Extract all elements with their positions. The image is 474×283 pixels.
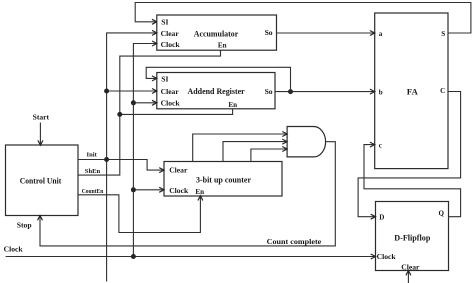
wire accumulator So to FA a	[277, 31, 375, 36]
svg-text:Clear: Clear	[401, 262, 420, 271]
counter (3-bit up counter) box	[164, 162, 282, 197]
svg-text:3-bit up counter: 3-bit up counter	[196, 174, 251, 184]
node Init junction row	[104, 157, 109, 162]
svg-text:ShEn: ShEn	[85, 168, 101, 175]
svg-text:En: En	[195, 188, 204, 196]
svg-text:En: En	[228, 101, 237, 109]
svg-text:Init: Init	[87, 152, 98, 159]
wire S to SI (top rail)	[135, 3, 471, 34]
wire Init bus (clear)	[107, 30, 157, 281]
node addend So junction	[288, 89, 293, 94]
addend register box	[157, 73, 275, 109]
node clock junction row	[131, 254, 136, 259]
wire Init row to counter Clear	[78, 160, 164, 173]
svg-text:So: So	[265, 28, 273, 37]
svg-text:Count complete: Count complete	[267, 237, 322, 246]
wire clock to addend Clock	[133, 100, 156, 105]
wire clock to counter Clock	[133, 187, 164, 192]
wire counter output bit0 to AND	[193, 132, 287, 162]
wire Start into control unit	[38, 123, 43, 146]
wire Init to addend Clear	[107, 89, 157, 94]
wire AND output Count complete to Stop	[38, 142, 336, 246]
svg-text:Addend Register: Addend Register	[188, 86, 245, 96]
svg-text:So: So	[265, 87, 273, 96]
svg-text:Control Unit: Control Unit	[20, 175, 62, 185]
node Stop	[17, 221, 32, 230]
accumulator register box	[157, 15, 277, 50]
svg-text:CountEn: CountEn	[82, 188, 104, 195]
svg-text:Clock: Clock	[169, 186, 189, 195]
wire clock bus	[133, 41, 156, 257]
svg-text:Accumulator: Accumulator	[194, 29, 239, 39]
node Start	[33, 113, 50, 122]
full adder FA box	[375, 13, 448, 169]
svg-text:Clock: Clock	[4, 245, 24, 254]
node Clock	[4, 245, 24, 254]
wire FA C to D-flipflop D	[358, 92, 461, 220]
wire addend So to FA b	[275, 89, 375, 94]
svg-text:a: a	[379, 30, 383, 38]
node clock junction addend	[131, 100, 136, 105]
node Count complete	[267, 237, 322, 246]
svg-text:Stop: Stop	[17, 221, 32, 230]
wire ShEn bus to accumulator En and addend En	[78, 50, 233, 175]
svg-text:SI: SI	[161, 17, 168, 26]
wire counter output bit1 to AND	[223, 139, 287, 161]
svg-text:Clear: Clear	[161, 87, 180, 96]
svg-text:Q: Q	[438, 210, 444, 218]
svg-text:Clock: Clock	[161, 40, 181, 49]
D-flipflop box	[376, 202, 449, 272]
node Init junction addend	[104, 89, 109, 94]
svg-text:Clear: Clear	[161, 29, 180, 38]
AND gate U2	[287, 127, 326, 157]
svg-text:S: S	[441, 30, 445, 38]
svg-text:b: b	[379, 88, 383, 96]
wire counter output bit2 to AND	[251, 147, 287, 162]
svg-text:Clock: Clock	[161, 99, 181, 108]
wire addend So feedback to addend SI	[146, 67, 290, 91]
svg-text:c: c	[379, 141, 382, 149]
svg-text:En: En	[218, 41, 227, 49]
svg-text:C: C	[440, 87, 445, 95]
control unit U1 box	[6, 145, 79, 216]
svg-text:SI: SI	[161, 74, 168, 83]
wire D-flipflop Q to FA c	[364, 142, 461, 217]
node ShEn	[85, 168, 101, 175]
svg-text:Clear: Clear	[169, 165, 188, 174]
wire Clock row	[6, 254, 376, 259]
node ShEn junction	[117, 112, 122, 117]
node Init	[87, 152, 98, 159]
wire CountEn to counter En	[78, 195, 203, 233]
svg-text:Clock: Clock	[377, 252, 397, 261]
svg-text:FA: FA	[407, 86, 419, 96]
svg-text:D: D	[379, 214, 384, 222]
svg-text:D-Flipflop: D-Flipflop	[394, 232, 430, 242]
node clock junction counter	[131, 187, 136, 192]
wire D-flipflop Clear from bottom	[406, 271, 411, 283]
svg-text:Start: Start	[33, 113, 50, 122]
node CountEn	[82, 188, 104, 195]
